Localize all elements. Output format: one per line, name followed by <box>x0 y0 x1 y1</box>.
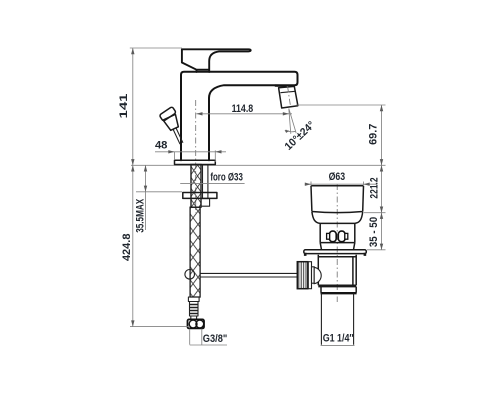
svg-text:69.7: 69.7 <box>367 124 379 145</box>
drain cap <box>311 186 364 213</box>
svg-text:foro Ø33: foro Ø33 <box>210 172 243 184</box>
dimension 35.5MAX <box>135 165 182 233</box>
base plate <box>175 160 216 164</box>
angle arc arrow <box>285 130 290 133</box>
svg-text:48: 48 <box>155 139 168 151</box>
label foro Ø33 <box>180 172 244 184</box>
pop-up rod <box>200 273 297 277</box>
svg-text:35 - 50: 35 - 50 <box>368 217 380 247</box>
hose connector neck <box>191 316 197 319</box>
svg-text:424.8: 424.8 <box>121 234 133 261</box>
hose collar <box>188 297 199 302</box>
svg-text:114.8: 114.8 <box>232 103 254 115</box>
dimension 48 <box>155 139 226 162</box>
aerator axis centerline <box>288 87 291 108</box>
handle lever U1 <box>182 49 251 72</box>
rod ball joint <box>185 270 195 280</box>
faucet body outline <box>181 72 298 160</box>
dimension 69.7 <box>296 105 386 165</box>
svg-text:G3/8": G3/8" <box>203 333 228 345</box>
dimension 141 <box>118 48 182 165</box>
dimension 221.2 <box>364 165 386 212</box>
faucet centerline <box>195 100 197 213</box>
mounting stud <box>203 165 208 199</box>
threaded shank foro <box>191 165 201 208</box>
drain funnel neck <box>312 212 363 250</box>
svg-text:G1 1/4″: G1 1/4″ <box>323 332 355 344</box>
backnut washer plate <box>183 193 217 199</box>
label G3/8" <box>190 329 228 345</box>
drain centerline <box>336 184 338 302</box>
braided hose <box>190 207 200 297</box>
knob bell <box>314 267 321 283</box>
label G1 1/4" <box>321 332 355 345</box>
svg-text:Ø63: Ø63 <box>329 171 346 183</box>
aerator spout tip <box>275 86 298 108</box>
side lever (open position) <box>158 106 189 147</box>
svg-text:141: 141 <box>118 93 130 119</box>
drain flange <box>304 250 367 254</box>
svg-text:221.2: 221.2 <box>369 177 381 198</box>
dimension 114.8 <box>196 103 292 116</box>
tailpiece tube <box>321 293 353 345</box>
drain body <box>318 255 356 285</box>
overflow slots <box>327 231 348 242</box>
hose ribbed connector <box>190 302 199 317</box>
angle wedge lines <box>286 109 297 134</box>
coupling band <box>318 287 356 293</box>
hose end nut G3/8 <box>188 319 205 328</box>
dimension Ø63 <box>305 171 377 186</box>
dimension 424.8 <box>121 165 188 326</box>
wire surface reference line <box>131 164 386 166</box>
svg-text:35.5MAX: 35.5MAX <box>135 198 147 232</box>
dimension 35 - 50 <box>367 213 386 250</box>
knurled knob <box>297 262 321 289</box>
